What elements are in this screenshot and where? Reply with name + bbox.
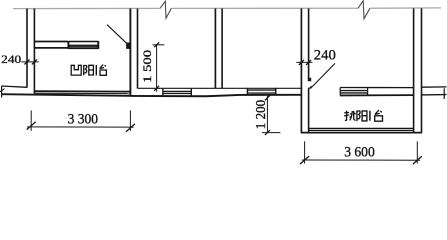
dimension 240 left tick 2 bbox=[32, 59, 37, 64]
dimension 3300 tick right bbox=[126, 124, 135, 132]
wall W4 left line bbox=[300, 8, 302, 132]
wire left edge end cap bbox=[1, 86, 3, 97]
dimension 1200 line bbox=[266, 96, 268, 133]
svg-text:240: 240 bbox=[314, 48, 336, 64]
wall balcony back top edge (left room) bbox=[34, 41, 68, 43]
dimension 240 right tick 1 bbox=[299, 60, 304, 65]
svg-text:3 300: 3 300 bbox=[68, 111, 98, 127]
dimension 3600 line bbox=[302, 159, 420, 161]
wire recessed balcony railing thick line bbox=[34, 90, 130, 92]
window middle-right bbox=[247, 88, 275, 95]
dimension 1200 tick bottom bbox=[265, 130, 270, 135]
wire facade heavy line middle bbox=[130, 95, 301, 96]
window in back wall of recessed balcony bbox=[68, 41, 98, 49]
wall balcony back bottom edge (left room) bbox=[34, 47, 68, 49]
wire top building line (thin gray) bbox=[13, 7, 441, 10]
text label 凹阳台 (recessed balcony) drawn glyphs bbox=[71, 65, 106, 76]
wall W2 left line bbox=[129, 9, 131, 96]
window balcony back wall bbox=[340, 87, 413, 95]
svg-text:3 600: 3 600 bbox=[344, 145, 375, 161]
node left break tick bbox=[0, 89, 5, 92]
wire band right of W5 top bbox=[422, 86, 447, 88]
wire facade heavy line left bbox=[1, 94, 131, 96]
dimension 3300 extension line right bbox=[129, 110, 131, 130]
stroke bar glyph (1) bbox=[95, 65, 97, 76]
door jamb at wall W2 bbox=[127, 43, 131, 48]
dimension 240 right tick 2 bbox=[306, 60, 311, 65]
dimension 3300 line bbox=[27, 126, 134, 128]
dimension 1200 bottom terminal bbox=[262, 132, 281, 134]
dimension 1500 tick bottom bbox=[154, 86, 159, 91]
door leaf diagonal left bbox=[107, 25, 126, 44]
glyph 台 (1) bbox=[100, 65, 107, 76]
wire band right of W5 bottom bbox=[422, 94, 447, 96]
wall W5 left line bbox=[413, 8, 415, 133]
dimension 1500 line bbox=[156, 45, 158, 92]
glyph 台 (2) bbox=[375, 110, 383, 121]
dimension 240 left line bbox=[21, 61, 39, 63]
svg-text:1 500: 1 500 bbox=[140, 50, 154, 83]
wire cantilever balcony railing line 2 bbox=[309, 130, 414, 132]
door jamb lower at wall W4 bbox=[308, 86, 311, 88]
dimension 1200 tick top bbox=[265, 95, 270, 100]
dimension 3600 extension line left bbox=[304, 141, 306, 163]
dimension 240 right line bbox=[296, 61, 312, 63]
window middle-left bbox=[163, 88, 191, 96]
node break mark 2 bbox=[358, 1, 370, 19]
stroke bar glyph (2) bbox=[369, 111, 371, 121]
dimension 3600 tick right bbox=[413, 156, 422, 164]
door jamb upper at wall W4 bbox=[308, 78, 311, 81]
dimension 3600 tick left bbox=[300, 156, 309, 164]
wire middle band top edge bbox=[138, 87, 302, 89]
wire cantilever balcony railing line 3 bottom bbox=[301, 132, 422, 134]
dimension 1500 tick top bbox=[154, 42, 159, 47]
dimension 3300 extension line left bbox=[30, 110, 32, 130]
wall W5 right line bbox=[421, 8, 423, 133]
node break mark 1 bbox=[160, 1, 171, 18]
wall W1 left line bbox=[26, 9, 28, 88]
wall W3 right line bbox=[221, 8, 223, 88]
wall W2 right line bbox=[137, 9, 139, 89]
wire cantilever balcony railing line 1 bbox=[309, 128, 414, 130]
glyph 凹 bbox=[71, 65, 81, 75]
dimension 3600 extension line right bbox=[416, 141, 418, 163]
wall W1 right line bbox=[33, 9, 35, 94]
glyph 挑 bbox=[344, 111, 355, 121]
wall W4 right line (door opening split) bbox=[308, 8, 310, 132]
door leaf diagonal right bbox=[311, 63, 335, 88]
dimension 3300 tick left bbox=[27, 122, 36, 130]
wire left facade top edge bbox=[2, 86, 28, 87]
glyph 阳 (2) bbox=[357, 110, 367, 121]
dimension 1500 top terminal bbox=[153, 44, 165, 46]
svg-text:1 200: 1 200 bbox=[253, 100, 268, 129]
svg-text:240: 240 bbox=[1, 52, 21, 66]
text label 挑阳台 (cantilever balcony) drawn glyphs bbox=[344, 110, 382, 121]
glyph 阳 (1) bbox=[84, 65, 94, 75]
node right break tick bbox=[443, 88, 445, 99]
wall W3 left line bbox=[214, 8, 216, 88]
dimension 240 left tick 1 bbox=[25, 59, 30, 64]
wire recessed balcony railing thin line bbox=[34, 92, 130, 94]
